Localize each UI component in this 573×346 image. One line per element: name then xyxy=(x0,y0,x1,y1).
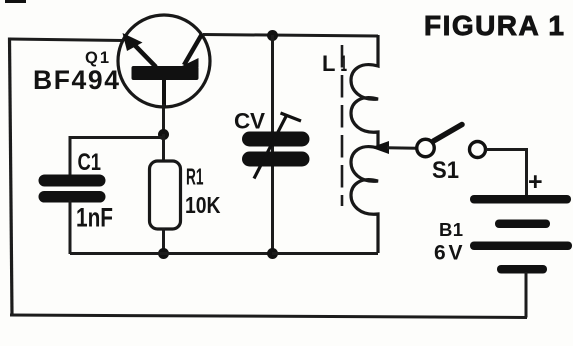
svg-text:FIGURA 1: FIGURA 1 xyxy=(424,10,564,41)
wire C1 top lead xyxy=(69,136,72,177)
svg-text:L: L xyxy=(322,51,335,76)
wire CV branch xyxy=(271,35,274,253)
inductor L1 xyxy=(351,35,378,253)
svg-text:1: 1 xyxy=(341,51,348,76)
battery B1 xyxy=(470,195,572,274)
capacitor CV xyxy=(242,132,310,167)
svg-text:6V: 6V xyxy=(434,242,463,265)
wire switch to battery xyxy=(486,150,527,197)
node CV bottom xyxy=(267,248,278,259)
svg-text:C1: C1 xyxy=(78,149,102,176)
svg-text:BF494: BF494 xyxy=(33,65,119,95)
wire R1 top lead xyxy=(162,134,165,162)
wire C1 bottom lead xyxy=(69,200,72,254)
svg-text:B1: B1 xyxy=(439,219,463,240)
wire battery to bottom xyxy=(525,272,528,318)
transistor Q1 xyxy=(118,15,210,107)
wire R1 bottom lead xyxy=(162,228,165,254)
node CV top xyxy=(267,30,278,41)
wire bottom xyxy=(10,315,527,318)
switch S1 xyxy=(417,125,486,158)
capacitor C1 xyxy=(39,175,106,203)
resistor R1 xyxy=(150,161,181,229)
svg-text:+: + xyxy=(528,168,543,196)
node bottom junction xyxy=(158,248,169,259)
wire top left xyxy=(9,39,123,41)
wire left edge xyxy=(10,38,13,316)
CV trimmer arrow xyxy=(254,113,301,179)
wire base lead xyxy=(162,104,165,134)
wire bottom rail xyxy=(70,252,378,255)
L1 core xyxy=(341,45,344,206)
svg-text:CV: CV xyxy=(234,109,265,134)
svg-text:R1: R1 xyxy=(186,164,204,190)
node base junction xyxy=(158,129,169,140)
svg-text:1nF: 1nF xyxy=(76,203,113,233)
svg-text:S1: S1 xyxy=(432,157,459,184)
svg-text:10K: 10K xyxy=(185,192,221,218)
wire top right xyxy=(203,35,378,37)
L1 tap arrow xyxy=(371,141,417,154)
wire junction to C1 xyxy=(70,136,164,139)
wire L1 bottom to rail xyxy=(272,252,378,255)
